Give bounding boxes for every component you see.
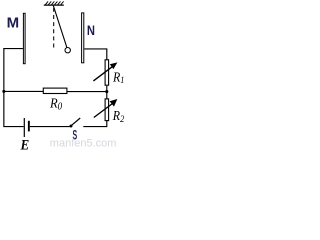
svg-text:manfen5.com: manfen5.com <box>50 138 117 150</box>
svg-text:E: E <box>20 137 30 150</box>
svg-text:N: N <box>87 23 95 38</box>
svg-text:M: M <box>7 15 20 32</box>
